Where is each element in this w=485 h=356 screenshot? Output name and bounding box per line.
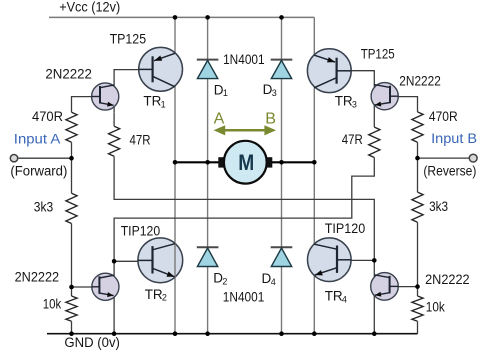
- svg-text:47R: 47R: [342, 132, 363, 147]
- svg-text:4: 4: [342, 295, 347, 305]
- svg-text:A: A: [214, 110, 225, 127]
- wire D3/D4 column: [281, 17, 283, 333]
- wire 470R to 3k3 right: [417, 142, 419, 192]
- node junction 3k3/10k/Q2 base left: [69, 285, 74, 290]
- svg-text:10k: 10k: [426, 300, 445, 315]
- node junction GND-Q4 emitter: [372, 331, 377, 336]
- wire 10k left to GND: [71, 321, 73, 333]
- resistor 3k3 left zigzag: [66, 193, 77, 223]
- svg-text:1: 1: [223, 88, 228, 98]
- wire cross wire 1: left 47R to TR4 base column: [114, 156, 374, 260]
- node junction Input A / 470R / 3k3: [69, 156, 74, 161]
- wire Input A: [14, 157, 72, 159]
- wire TR1 base from Q1 collector corner: [114, 70, 153, 113]
- node junction motor left node A: [173, 160, 178, 165]
- svg-text:TP125: TP125: [361, 46, 395, 61]
- svg-text:Input A: Input A: [14, 132, 61, 147]
- terminal Input B: [469, 154, 477, 162]
- svg-text:TIP120: TIP120: [121, 224, 161, 239]
- transistor TR4 TIP120: [308, 238, 352, 282]
- node junction motor-D3/D4: [279, 160, 284, 165]
- svg-text:47R: 47R: [130, 132, 151, 147]
- node junction GND-D2: [205, 331, 210, 336]
- motor M: [218, 141, 272, 184]
- svg-text:470R: 470R: [32, 109, 63, 124]
- node junction GND-Q2 emitter: [112, 331, 117, 336]
- svg-text:3k3: 3k3: [34, 200, 53, 215]
- svg-text:TP125: TP125: [110, 32, 147, 47]
- node junction TR4 base: [372, 258, 377, 263]
- diode D3 1N4001: [271, 60, 293, 79]
- wire 3k3 to 10k left: [71, 224, 73, 297]
- svg-text:3k3: 3k3: [429, 199, 448, 214]
- wire 470R to 3k3 left: [71, 142, 73, 193]
- resistor 470R left zigzag: [66, 112, 77, 142]
- svg-text:TR: TR: [143, 94, 161, 109]
- node junction GND-D4: [279, 331, 284, 336]
- svg-text:TIP120: TIP120: [325, 221, 366, 236]
- svg-text:2N2222: 2N2222: [45, 66, 92, 81]
- resistor 470R right zigzag: [412, 112, 423, 142]
- wire small BR base: [398, 286, 417, 288]
- wire small TL base / 470R left column: [72, 97, 93, 113]
- resistor 47R left zigzag: [109, 126, 120, 156]
- svg-text:M: M: [238, 150, 254, 175]
- transistor Q4 interlock of TR4 (2N2222): [371, 273, 399, 301]
- svg-text:3: 3: [272, 88, 277, 98]
- wire 3k3 to 10k right: [417, 222, 419, 296]
- resistor 3k3 right zigzag: [412, 192, 423, 222]
- resistor 10k right zigzag: [412, 296, 423, 321]
- wire cross wire 2: right 47R to TR2 base: [114, 158, 374, 334]
- svg-text:4: 4: [271, 277, 276, 287]
- wire TR1/TR2 column (left transistor column): [174, 17, 176, 333]
- svg-text:1N4001: 1N4001: [223, 52, 265, 67]
- wire GND rail: [47, 333, 418, 335]
- node junction GND-10k left: [69, 331, 74, 336]
- wire small TL emitter to 47R: [113, 112, 115, 126]
- svg-text:GND (0v): GND (0v): [64, 335, 120, 350]
- transistor TR1 TIP125: [139, 47, 183, 91]
- node junction 3k3/10k/Q4 base right: [415, 284, 420, 289]
- svg-text:1: 1: [161, 99, 166, 109]
- transistor TR2 TIP120: [138, 238, 183, 283]
- resistor 47R right zigzag: [369, 127, 380, 157]
- svg-text:B: B: [265, 110, 276, 127]
- wire D1/D2 column: [207, 17, 209, 333]
- svg-text:1N4001: 1N4001: [223, 290, 264, 305]
- resistor 10k left zigzag: [66, 296, 77, 321]
- svg-text:TR: TR: [145, 287, 163, 302]
- wire TR4-base node down through Q4 to GND: [373, 260, 375, 333]
- svg-text:TR: TR: [335, 94, 353, 109]
- wire motor node line: [175, 161, 314, 163]
- node junction Vcc-D1: [205, 15, 210, 20]
- svg-text:470R: 470R: [429, 109, 458, 124]
- direction arrow A-B: [214, 125, 276, 135]
- transistor Q2 interlock of TR2 (2N2222): [92, 273, 119, 300]
- svg-text:3: 3: [352, 99, 357, 109]
- diode D1 1N4001: [197, 60, 219, 79]
- node junction Vcc-TR1 column: [173, 15, 178, 20]
- svg-text:2N2222: 2N2222: [15, 269, 60, 284]
- svg-text:(Reverse): (Reverse): [423, 163, 476, 178]
- svg-text:10k: 10k: [43, 297, 62, 312]
- wire small TR base / 470R right column: [398, 97, 417, 112]
- svg-text:2: 2: [162, 293, 167, 303]
- node junction motor-D1/D2: [205, 160, 210, 165]
- svg-text:Input B: Input B: [431, 131, 477, 146]
- svg-text:2N2222: 2N2222: [399, 74, 441, 89]
- wire 10k right to GND corner: [417, 321, 419, 333]
- wire TR3 base to Q3 collector corner: [337, 71, 375, 127]
- wire small BL base: [72, 286, 93, 288]
- node junction motor right node B: [312, 160, 317, 165]
- svg-text:TR: TR: [325, 289, 343, 304]
- node junction GND-TR2 emitter: [173, 331, 178, 336]
- diode D4 1N4001: [271, 247, 293, 266]
- diode D2 1N4001: [197, 247, 219, 266]
- wire TR2 base: [114, 260, 152, 262]
- wire +Vcc top rail: [49, 16, 314, 18]
- svg-text:2N2222: 2N2222: [425, 272, 470, 287]
- svg-text:(Forward): (Forward): [10, 164, 67, 179]
- transistor TR3 TIP125: [307, 49, 351, 93]
- svg-text:+Vcc (12v): +Vcc (12v): [59, 0, 120, 14]
- node junction Input B / 470R / 3k3: [415, 156, 420, 161]
- transistor Q1 driver of TR1 (2N2222): [92, 83, 119, 110]
- node junction TR2 base: [112, 259, 117, 264]
- transistor Q3 driver of TR3 (2N2222): [371, 83, 398, 110]
- wire TR4 base: [336, 259, 374, 261]
- svg-text:2: 2: [222, 276, 227, 286]
- wire TR3/TR4 column (right transistor column): [313, 17, 315, 333]
- node junction Vcc-D3: [279, 15, 284, 20]
- wire Input B: [418, 157, 474, 159]
- node junction GND-TR4 emitter: [312, 331, 317, 336]
- terminal Input A: [10, 155, 17, 162]
